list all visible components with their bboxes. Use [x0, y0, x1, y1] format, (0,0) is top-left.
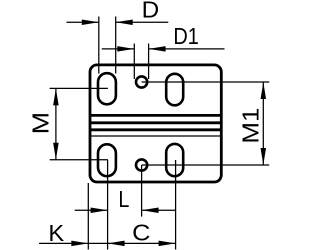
arrow D left: [82, 20, 99, 26]
centerline top-left slot: [50, 87, 108, 89]
dimension line M1: [262, 82, 264, 165]
svg-text:L: L: [118, 186, 129, 212]
svg-text:M: M: [28, 112, 54, 135]
groove thin line: [89, 135, 222, 137]
arrow C left: [108, 241, 125, 247]
dimension line D: [67, 21, 99, 23]
extension line below part at left edge: [87, 183, 89, 250]
arrow L left: [91, 208, 108, 214]
hole top: [136, 76, 147, 87]
svg-text:K: K: [48, 220, 64, 246]
slot bottom-left: [98, 144, 116, 176]
dimension line D1: [102, 48, 135, 50]
svg-text:D1: D1: [173, 23, 199, 49]
arrow M top: [53, 88, 59, 105]
extension line D1 left: [133, 44, 135, 80]
arrow M1 bottom: [261, 148, 267, 165]
hole bottom: [136, 159, 147, 170]
arrow M bottom: [53, 143, 59, 160]
slot top-left: [98, 73, 116, 104]
arrow L right: [142, 208, 159, 214]
extension line below part at left slot center: [107, 160, 109, 250]
extension line D right: [115, 17, 117, 74]
extension line below part at right slot center: [175, 160, 177, 250]
extension line D1 right: [148, 44, 150, 80]
arrow K right: [71, 241, 88, 247]
part body outline: [90, 65, 221, 182]
slot bottom-right: [166, 144, 183, 176]
svg-text:M1: M1: [237, 108, 263, 144]
arrow D1 right: [149, 46, 166, 52]
centerline bottom hole to right: [142, 164, 270, 166]
arrow D1 left: [117, 46, 134, 52]
svg-text:C: C: [132, 220, 150, 246]
arrow D right: [116, 20, 133, 26]
slot top-right: [166, 74, 183, 106]
arrow C right: [159, 241, 176, 247]
extension line below part at hole center: [141, 165, 143, 217]
svg-text:D: D: [142, 0, 160, 23]
groove line 2: [89, 121, 222, 124]
centerline top hole to right: [142, 81, 270, 83]
centerline bottom-left slot: [50, 159, 108, 161]
dimension line M: [55, 88, 57, 159]
dimension line K C chain: [39, 242, 176, 244]
dimension line L: [75, 209, 108, 211]
groove line 3: [89, 128, 222, 131]
groove line 1: [89, 114, 222, 117]
arrow M1 top: [261, 82, 267, 99]
extension line D left: [98, 17, 100, 74]
